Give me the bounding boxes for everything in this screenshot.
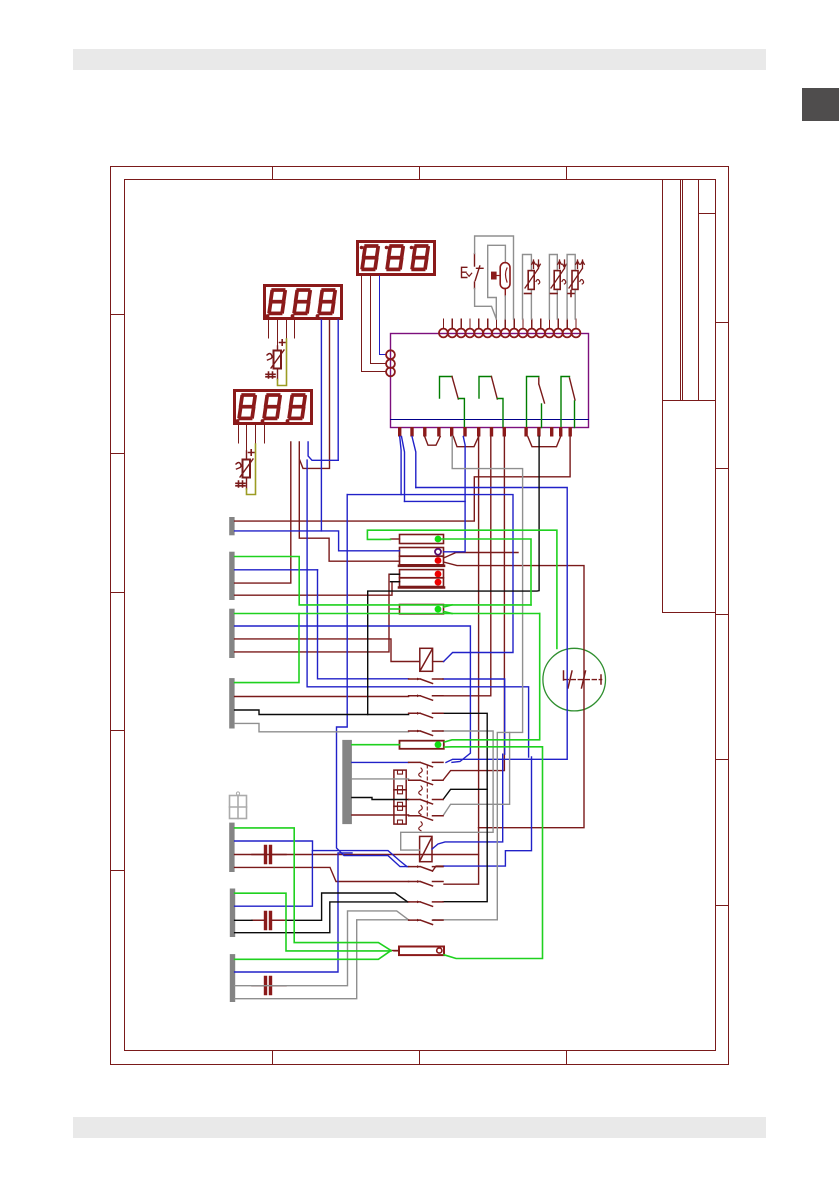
wire green R6 fan arrows bbox=[444, 605, 452, 614]
wire sw695 to pad 6 bbox=[443, 437, 491, 696]
wire bar G blue riser bbox=[235, 853, 352, 972]
fuse block F1-F3 (three holders) bbox=[394, 770, 406, 824]
connector bar X1 bbox=[229, 517, 234, 535]
wire B-display pin7 drop bbox=[337, 320, 339, 460]
wire gray loop inner (to pad 7) bbox=[488, 245, 506, 319]
wire sensor loop (olive) bbox=[247, 444, 256, 495]
wire blue corner bundle bbox=[444, 757, 532, 866]
wire X8 black to sw800 bbox=[352, 798, 409, 800]
thermistor RT1 (sensor at DIS2) bbox=[266, 339, 287, 386]
wire bar A blue to R2 left bbox=[235, 531, 400, 551]
wire sw920 right gray stub bbox=[434, 919, 436, 921]
wire green R7 bottom fan to lamp riser bbox=[444, 747, 543, 959]
wire green bar D riser bbox=[235, 614, 299, 683]
inner drawing frame bbox=[125, 180, 716, 1051]
connector bar X8 (tall center header) bbox=[342, 740, 352, 824]
wire relay K1 left lead bbox=[433, 661, 444, 663]
wire sensor loop (olive) bbox=[278, 339, 287, 386]
wire R3 fan bottom to right drop bbox=[444, 562, 584, 828]
relay K2 (coil box with diagonal) bbox=[420, 836, 432, 861]
wire DIS2 pin stubs bbox=[268, 320, 270, 338]
wire sw800 right black bbox=[443, 789, 487, 799]
wire bar B blue bbox=[235, 569, 318, 571]
wire bar C red1 to relay K1 bbox=[235, 639, 420, 662]
relay contact K4a inside board bbox=[561, 377, 575, 428]
wire blue bus pin1-relay K1 bbox=[347, 495, 513, 662]
switch S5 (ganged, with spring) bbox=[409, 762, 443, 766]
wire sw713 right black riser-drop bbox=[443, 713, 487, 901]
wire blue branch to pad8 column bbox=[405, 500, 466, 502]
wire bar E red1 with C1 to column bbox=[235, 854, 479, 856]
wire blue bus pin2-sw762 bbox=[416, 488, 567, 763]
frame zone ticks bottom bbox=[273, 1052, 567, 1065]
switch S10 bbox=[409, 882, 443, 886]
switch contacts column (program selector) bbox=[409, 678, 443, 925]
wire black pad11 long route bbox=[368, 437, 539, 715]
wire DIS3 pin stubs bbox=[238, 425, 240, 443]
title block columns bbox=[663, 180, 699, 613]
wire C-display pin7 blue bbox=[308, 442, 338, 460]
wire X8 blue to sw762 bbox=[352, 761, 409, 763]
switch S9 bbox=[409, 867, 443, 871]
display DIS3 (lower-left 7-segment module) bbox=[235, 391, 312, 424]
title block dividers bbox=[663, 214, 716, 613]
wire sw679 right blue bbox=[443, 679, 505, 754]
wire bar E red2 to sw884 bbox=[235, 867, 409, 881]
wire blue pad8 to R2 bbox=[444, 437, 466, 552]
wire green R7 rail down bbox=[444, 614, 539, 743]
wire green bar G to lamp fan bottom bbox=[235, 951, 391, 960]
switch S6 bbox=[409, 780, 443, 784]
relay contact K2a inside board bbox=[479, 377, 503, 428]
switch S3 bbox=[409, 713, 443, 717]
capacitor C3 bbox=[252, 978, 286, 994]
switch S12 bbox=[409, 920, 443, 924]
wire pin hook pads 10-13 bbox=[528, 437, 561, 447]
wire R1 left stub bbox=[391, 538, 400, 540]
wire gray pad5 long route to sw920 bbox=[434, 437, 523, 920]
page tab marker bbox=[802, 88, 839, 121]
wire sw780 to pad 9 bbox=[443, 437, 504, 781]
controller board A1 outline bbox=[391, 334, 589, 428]
wire bar F blue riser bbox=[235, 851, 313, 907]
connector bar X4 bbox=[229, 678, 234, 728]
capacitor C1 bbox=[252, 847, 286, 863]
connector bar X5 bbox=[229, 823, 234, 872]
wire blue mid crossing bbox=[307, 460, 528, 757]
wire green bar B to R6 fan top rail bbox=[235, 557, 531, 605]
motor M1 bbox=[543, 648, 606, 711]
display DIS1 (top 7-segment module) bbox=[358, 242, 435, 275]
wire gray loop outer (to pads 7/9) bbox=[475, 236, 514, 319]
wire green bar F to lamp fan mid bbox=[235, 893, 391, 951]
connector bar X2 bbox=[229, 552, 234, 600]
wire C-display pin6 to R3 stub bbox=[299, 442, 399, 561]
wire sw816 right gray riser bbox=[443, 732, 510, 815]
wire bar C blue bbox=[235, 626, 471, 762]
module R7 (box with green LED, thick outline) bbox=[400, 741, 444, 749]
header bar bbox=[73, 49, 766, 70]
wire R3 fan top bbox=[444, 553, 518, 559]
module R2 (box with ring LED) bbox=[400, 548, 444, 557]
wire pin hook pads 5-7 bbox=[453, 437, 478, 447]
frame zone ticks top bbox=[273, 167, 567, 180]
wire B-display pin7 blue long drop bbox=[337, 495, 409, 867]
footer bar bbox=[73, 1117, 766, 1138]
window/door icon bbox=[230, 792, 247, 819]
wire green X8 to R7 bbox=[352, 744, 400, 746]
wire C-display pin5 to bar B bbox=[235, 442, 291, 583]
connector pin row below board bbox=[398, 427, 572, 437]
door switch E-7 bbox=[462, 254, 484, 289]
wire bar C red2 to R4 stub bbox=[235, 574, 400, 652]
relay K1 (coil box with diagonal) bbox=[420, 648, 433, 671]
lamp H2 (indicator box with circle) bbox=[394, 947, 444, 956]
wire green bar E to lamp fan top bbox=[235, 828, 391, 951]
wire R5 stub bbox=[391, 581, 400, 583]
sensor B2 (NTC with loop) bbox=[549, 255, 566, 320]
relay contact K3a inside board bbox=[527, 377, 545, 428]
thermistor RT2 (sensor at DIS3) bbox=[236, 444, 256, 495]
switch S2 bbox=[409, 696, 443, 700]
relay contact K1a inside board bbox=[440, 377, 465, 428]
wire green R1 to rail riser bbox=[441, 539, 531, 605]
selector gang dashed link bbox=[426, 765, 428, 818]
wire X8 gray to sw780 bbox=[352, 778, 409, 780]
wire bar D red to sw696 bbox=[235, 696, 409, 698]
connector bar X7 bbox=[230, 954, 235, 1002]
wire bar E blue to sw867 bbox=[235, 841, 407, 867]
connector bar X3 bbox=[229, 609, 234, 658]
wire bar B red1 bbox=[235, 582, 400, 596]
wire sw731 right gray to relay K2 bbox=[401, 731, 493, 850]
wire pin hook pads 3-4 bbox=[425, 437, 441, 446]
module R3 (box with red LED, thick base) bbox=[399, 556, 444, 566]
connector row X10 (16 ring pads on board top) bbox=[439, 329, 580, 338]
indicator lamp E1 (oval) bbox=[492, 263, 510, 296]
capacitor C2 bbox=[252, 913, 286, 929]
wire bar D black jog to sw713 bbox=[235, 710, 409, 715]
display DIS2 (middle 7-segment module) bbox=[265, 286, 342, 319]
sensor B1 (NTC with loop) bbox=[523, 255, 541, 320]
switch S1 bbox=[409, 679, 443, 683]
wire bar F black2 bbox=[235, 902, 409, 933]
switch S11 bbox=[409, 902, 443, 906]
wire green bar C to R6 fan bottom rail bbox=[235, 613, 540, 615]
wire green R6 left stub bbox=[391, 608, 400, 610]
frame zone ticks left bbox=[111, 315, 125, 871]
wire DIS1 pins to board left pads bbox=[362, 276, 386, 372]
wire lamp H2 left lead red bbox=[391, 950, 399, 952]
module R5 (box with red LED, thick base) bbox=[399, 578, 444, 588]
wire bar A red to pad 14 bbox=[235, 437, 570, 522]
wire bus (navy) through board bottom bbox=[391, 419, 589, 421]
wire bar D gray jog bbox=[235, 723, 409, 731]
switch S8 bbox=[409, 816, 443, 820]
module R4 (box with red LED) bbox=[400, 570, 444, 578]
wire X8 red to sw816 bbox=[352, 814, 409, 816]
switch S7 bbox=[409, 800, 443, 804]
wire bar F black1 with C2 bbox=[235, 919, 252, 921]
pin stubs above connector row bbox=[443, 319, 576, 329]
sensor B3 (NTC with loop) bbox=[567, 255, 584, 320]
switch S4 bbox=[409, 731, 443, 735]
wire relay K2 right blue riser bbox=[432, 754, 503, 849]
wire green motor feed bbox=[367, 530, 557, 648]
wire pad1b blue drop bbox=[402, 437, 405, 502]
heater module R1 (box with green LED) bbox=[400, 535, 444, 544]
wire pad2 blue drop bbox=[412, 437, 416, 488]
outer drawing frame bbox=[111, 167, 729, 1065]
wire B-display pin6 jog bbox=[300, 320, 330, 468]
wire R4 stub bbox=[391, 573, 400, 575]
wire pad1 blue drop bbox=[400, 437, 401, 495]
frame zone ticks right bbox=[716, 323, 729, 906]
wire sw867 right lead bbox=[433, 866, 444, 871]
wire B-display pin5 blue bbox=[320, 320, 322, 531]
wire blue drop to sw679 bbox=[318, 570, 409, 679]
connector bar X6 bbox=[230, 889, 235, 938]
module R6 (box with green LED) bbox=[400, 605, 444, 614]
wire bar G gray1 with C3 bbox=[235, 911, 409, 986]
connector pads left side of board bbox=[386, 350, 395, 376]
wire pad7 column down to lower switch bbox=[444, 437, 479, 885]
wire bar G gray2 bbox=[235, 920, 409, 999]
